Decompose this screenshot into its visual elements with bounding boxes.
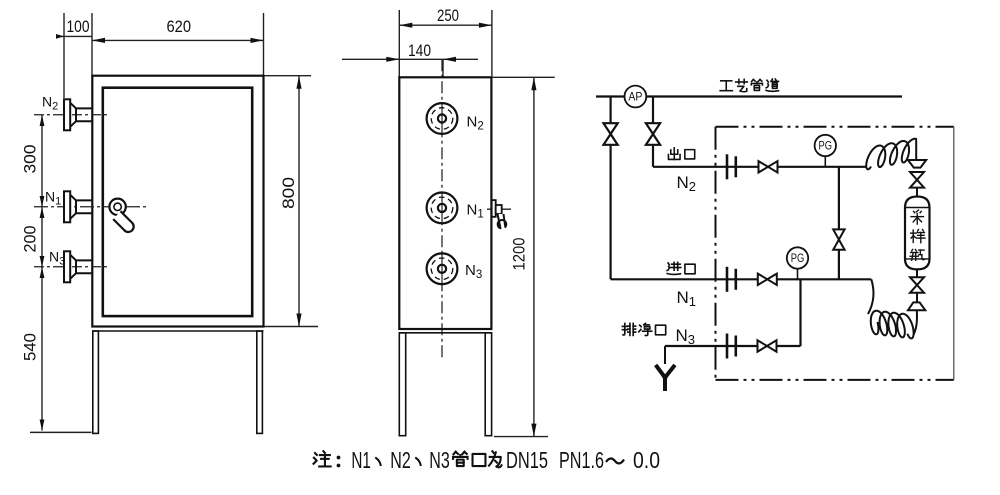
side body center line [441,59,443,358]
pipe drain [665,345,801,347]
nozzle N2 front [64,99,70,130]
cabinet base line front [92,330,263,332]
svg-text:N2: N2 [42,94,58,113]
dimension 250 ext lines [399,10,492,77]
pipe inlet [611,278,872,280]
flange N2 side [427,103,458,134]
svg-text:540: 540 [22,333,40,361]
valve V5 bottle top [910,172,924,188]
valve V6 bottle bottom [916,269,918,277]
left dimension line [41,115,43,431]
side right leg [485,333,491,436]
svg-text:N2: N2 [390,447,411,473]
pipe main process [596,95,902,97]
svg-text:300: 300 [22,145,40,174]
enclosure box [716,127,954,380]
svg-text:800: 800 [280,177,298,209]
dimension 800 extension lines [264,76,319,327]
flange N3 side [427,253,458,284]
nozzle N3 front [64,251,70,282]
label inlet [667,262,681,274]
svg-text:N3: N3 [676,326,696,347]
gauge PG2 [787,247,808,279]
funnel upper [908,160,926,168]
hose connector outlet [726,154,729,179]
dimension 800 line [298,76,300,327]
svg-text:PN1.6: PN1.6 [559,447,604,473]
svg-text:N3: N3 [465,262,482,281]
gauge PG1 [815,135,836,167]
svg-text:200: 200 [22,226,40,253]
svg-text:PG: PG [819,141,833,153]
coil lower [868,279,874,314]
dimension 1200 line [533,77,535,436]
svg-text:N1: N1 [467,202,484,221]
valve V4 [833,229,844,249]
svg-text:N2: N2 [677,173,697,194]
svg-text:N1: N1 [45,189,61,208]
svg-text:DN15: DN15 [506,447,548,473]
svg-text:N1: N1 [351,447,371,473]
dimension 620 line [92,39,264,41]
label sample bottle [911,210,923,224]
cabinet door front [103,88,252,316]
pipe cross connector [838,167,840,279]
valve V3 [759,161,778,172]
center line N3 front [34,266,107,268]
nozzle N1 front [64,191,70,222]
dimension 100 line [56,35,92,37]
dimension 100 extension lines [64,13,92,98]
svg-text:100: 100 [67,18,90,36]
sample bottle [905,197,930,270]
cabinet outer front [92,76,263,327]
svg-text:250: 250 [437,7,459,25]
svg-text:1200: 1200 [510,238,529,271]
side body [399,77,491,329]
door handle front [109,199,133,232]
valve V8 [758,340,777,351]
svg-text:0.0: 0.0 [633,447,660,473]
svg-text:AP: AP [628,92,642,104]
hose connector inlet [726,267,729,292]
pipe branch outlet [652,97,654,167]
valve V7 [758,274,777,285]
valve V1 [604,123,618,145]
pipe pg to drain [799,279,801,346]
svg-text:N1: N1 [677,288,697,309]
side base line [399,332,491,334]
note text [314,447,660,473]
gauge AP [625,86,647,108]
bottom tick line [30,431,92,433]
svg-text:140: 140 [408,42,431,60]
pipe outlet [653,166,867,168]
front right leg [257,331,263,433]
label process pipe [720,81,732,91]
pipe branch left [609,97,611,280]
valve V2 [646,123,660,145]
dimension 250 line [399,24,492,26]
front left leg [93,331,99,433]
center line N2 front [34,114,107,116]
svg-text:620: 620 [167,18,192,36]
label drain [622,323,635,335]
label outlet [668,148,680,160]
svg-text:N3: N3 [429,447,450,473]
drain Y symbol [657,346,674,389]
flange N1 side [427,193,458,224]
svg-text:N3: N3 [49,249,65,268]
hose connector drain [726,334,729,359]
side left leg [399,333,405,436]
svg-text:N2: N2 [467,114,484,133]
handle side [487,200,511,228]
dimension 140 line [342,59,478,77]
dimension 1200 ext lines [491,77,554,436]
svg-text:PG: PG [791,253,805,265]
funnel lower [916,293,918,303]
coil upper [866,139,916,170]
pipe to funnel upper [915,140,917,161]
center line N1 front [34,206,148,208]
